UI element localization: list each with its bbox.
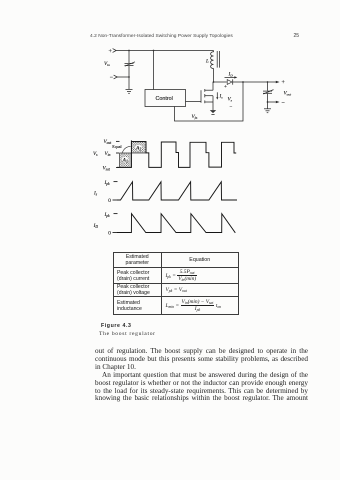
svg-text:Vout: Vout bbox=[284, 91, 293, 97]
ground mosfet source bbox=[210, 110, 216, 115]
svg-text:0: 0 bbox=[108, 231, 111, 237]
wire gate bbox=[186, 101, 202, 103]
ground output bbox=[264, 109, 271, 113]
label Id bbox=[228, 71, 234, 77]
label Control bbox=[156, 96, 173, 102]
waveform Is level ticks bbox=[113, 182, 118, 200]
svg-text:−: − bbox=[110, 75, 114, 81]
svg-text:Vout: Vout bbox=[104, 139, 113, 145]
svg-text:+: + bbox=[109, 49, 113, 55]
label Is bbox=[219, 94, 224, 100]
capacitor Cin bbox=[125, 51, 136, 90]
svg-text:−: − bbox=[282, 100, 286, 106]
capacitor Cout bbox=[263, 82, 274, 109]
waveform Id axis labels bbox=[93, 212, 112, 237]
area A2 hatched bbox=[131, 142, 146, 154]
node junction feedback tap bbox=[242, 81, 244, 83]
wire top rail bbox=[117, 50, 214, 52]
label Vout output bbox=[282, 80, 293, 106]
node plus input terminal bbox=[113, 49, 117, 53]
wire control feed bbox=[153, 51, 155, 90]
label L bbox=[205, 59, 209, 65]
page number 25 bbox=[294, 33, 300, 39]
svg-text:Vs: Vs bbox=[228, 97, 233, 103]
svg-text:0: 0 bbox=[108, 198, 111, 204]
waveform Vs level ticks bbox=[116, 141, 120, 167]
op-amp control block U1 bbox=[145, 90, 186, 107]
CIRCUIT + WAVEFORMS SVG placed here bbox=[0, 0, 1, 1]
svg-text:ID: ID bbox=[93, 223, 99, 229]
svg-text:Vin: Vin bbox=[104, 61, 110, 67]
svg-text:L: L bbox=[205, 59, 209, 65]
svg-text:ID: ID bbox=[228, 71, 234, 77]
waveform Is axis labels bbox=[93, 180, 111, 204]
node junction top rail cap bbox=[128, 50, 130, 78]
svg-text:+: + bbox=[224, 84, 227, 90]
wire Is arrow bbox=[216, 92, 218, 99]
wire output plus arrow bbox=[276, 81, 280, 84]
svg-text:Vin: Vin bbox=[105, 151, 111, 157]
node junction output cap bbox=[267, 81, 269, 103]
label Vs switch bbox=[224, 84, 233, 111]
area A1 hatched bbox=[120, 153, 132, 167]
waveform Vs axis labels bbox=[93, 139, 123, 171]
figure caption bbox=[101, 323, 132, 329]
wire feedback bbox=[175, 82, 244, 121]
wire Id arrow bbox=[225, 76, 238, 78]
svg-text:−: − bbox=[230, 106, 233, 111]
equation table bbox=[113, 252, 239, 315]
transistor Q1 mosfet bbox=[201, 82, 213, 110]
body text bbox=[95, 348, 308, 403]
svg-text:Ipk: Ipk bbox=[104, 180, 111, 186]
equal arrow bbox=[122, 147, 130, 153]
ground input bbox=[126, 89, 133, 93]
svg-text:+: + bbox=[282, 80, 285, 86]
running head bbox=[90, 34, 233, 39]
waveform Id trace bbox=[117, 214, 235, 233]
label Vfb bbox=[192, 114, 198, 120]
svg-text:Vs: Vs bbox=[93, 151, 98, 157]
svg-text:Is: Is bbox=[93, 191, 98, 197]
node junction drain bbox=[213, 81, 215, 83]
svg-text:Equal: Equal bbox=[112, 144, 122, 149]
waveform Id level ticks bbox=[113, 214, 118, 233]
node junction control feed bbox=[153, 50, 155, 52]
inductor L bbox=[211, 51, 220, 83]
svg-text:Is: Is bbox=[219, 94, 224, 100]
label Vin bbox=[104, 49, 114, 81]
svg-text:Ipk: Ipk bbox=[104, 212, 111, 218]
wire minus terminal lead bbox=[114, 75, 129, 79]
waveform Is trace bbox=[117, 182, 237, 200]
svg-text:Vfb: Vfb bbox=[192, 114, 198, 120]
waveform Vs trace bbox=[117, 140, 236, 167]
wire output minus arrow bbox=[268, 101, 280, 104]
diode D1 bbox=[214, 79, 277, 84]
svg-text:Control: Control bbox=[156, 96, 173, 102]
svg-text:Vsat: Vsat bbox=[103, 165, 111, 171]
